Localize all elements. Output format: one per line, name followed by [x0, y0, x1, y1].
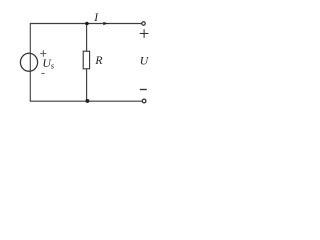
svg-text:U: U: [140, 54, 150, 67]
svg-text:I: I: [93, 12, 99, 24]
svg-text:Us: Us: [42, 56, 54, 70]
svg-text:R: R: [94, 54, 102, 67]
